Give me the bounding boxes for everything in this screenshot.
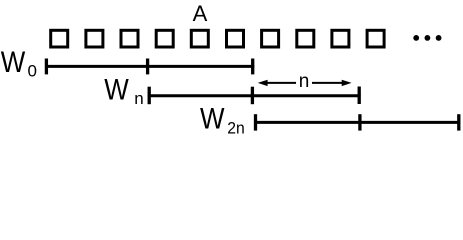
svg-text:0: 0: [28, 62, 37, 81]
sample square 9: [332, 30, 349, 47]
left arrowhead: [258, 80, 268, 86]
sample square 2: [86, 30, 103, 47]
svg-text:n: n: [299, 71, 310, 92]
W2n middle tick: [358, 114, 361, 130]
sample square 3: [121, 30, 138, 47]
svg-text:W: W: [1, 46, 26, 79]
W0 left tick: [45, 59, 48, 75]
W2n right tick: [457, 114, 460, 130]
W0 right tick: [251, 59, 254, 75]
sample square 10: [367, 30, 384, 47]
ellipsis dot 3: [436, 35, 442, 41]
W2n left tick: [254, 114, 257, 130]
W2n horizontal line: [254, 121, 460, 124]
sample square 5 (below label A): [191, 30, 208, 47]
svg-text:n: n: [134, 89, 143, 108]
window W0 line: [45, 59, 254, 75]
sample square 6: [227, 30, 244, 47]
svg-text:W: W: [104, 74, 129, 107]
ellipsis dots: [413, 35, 441, 41]
window W2n line: [254, 114, 460, 130]
Wn right tick: [358, 87, 361, 105]
svg-text:A: A: [193, 1, 208, 26]
W0 middle tick: [146, 59, 149, 75]
W0 horizontal line: [45, 65, 254, 68]
n arrow right shaft: [312, 82, 344, 84]
window Wn line: [148, 87, 361, 105]
Wn horizontal line: [148, 94, 361, 97]
Wn left tick: [148, 87, 151, 105]
sample square 8: [297, 30, 314, 47]
sample square 7: [262, 30, 279, 47]
ellipsis dot 1: [413, 35, 419, 41]
sample squares row: [51, 30, 384, 47]
n arrow left shaft: [265, 82, 296, 84]
right arrowhead: [342, 80, 352, 86]
svg-text:W: W: [200, 103, 225, 136]
sample square 1: [51, 30, 68, 47]
sample square 4: [156, 30, 173, 47]
svg-text:2n: 2n: [227, 118, 245, 137]
Wn middle tick: [251, 87, 254, 105]
ellipsis dot 2: [425, 35, 431, 41]
n span arrow: [258, 80, 352, 86]
